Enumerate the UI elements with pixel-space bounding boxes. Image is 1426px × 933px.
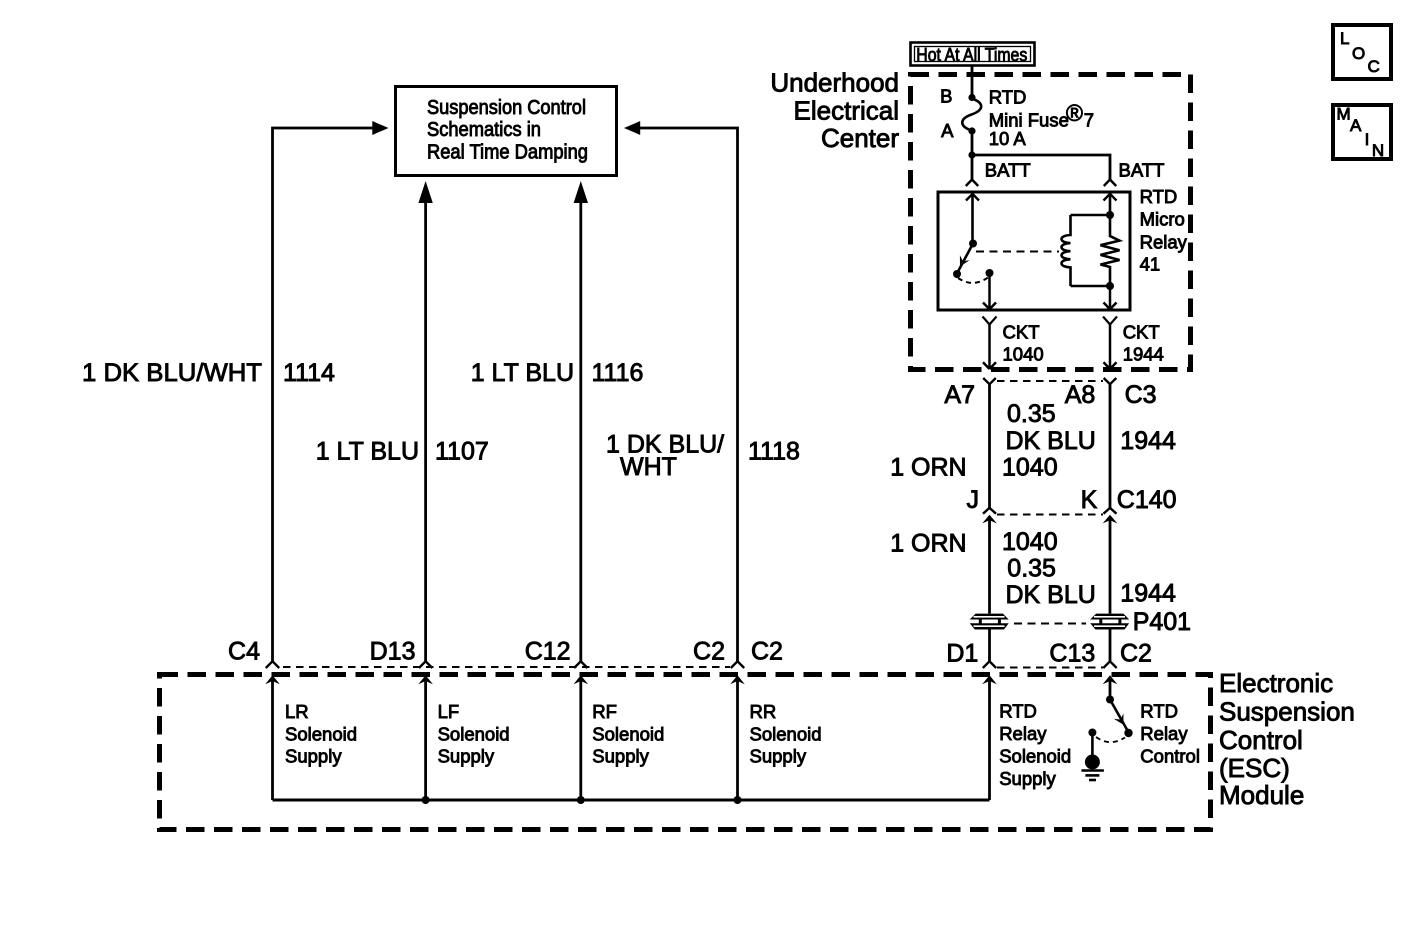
junction dot RR: [734, 796, 742, 804]
dashed connector line J-K: [997, 514, 1103, 516]
wire from hot feed to fuse: [971, 67, 974, 98]
relay coil output dot: [1106, 282, 1114, 290]
svg-text:0.35: 0.35: [1007, 400, 1056, 428]
switch left dot: [1088, 729, 1096, 737]
svg-text:RTD: RTD: [989, 87, 1027, 108]
svg-text:BATT: BATT: [985, 159, 1031, 180]
box Hot At All Times: [911, 43, 1035, 66]
svg-text:1 DK BLU/WHT: 1 DK BLU/WHT: [82, 359, 262, 387]
svg-text:1040: 1040: [1002, 454, 1058, 482]
relay output Y terminal left: [983, 317, 997, 325]
wire fuse output: [971, 131, 974, 180]
connector chevron C13: [1103, 661, 1116, 668]
svg-text:1 ORN: 1 ORN: [890, 530, 966, 558]
label wire 1107: [316, 438, 489, 466]
svg-text:Relay: Relay: [1140, 723, 1188, 744]
svg-text:J: J: [967, 486, 980, 514]
wire RTD relay control with arrow: [1103, 675, 1118, 699]
connector chevron J: [983, 508, 996, 514]
relay resistor: [1101, 215, 1120, 286]
label RTD Relay Solenoid Supply: [999, 701, 1071, 790]
svg-text:Real Time Damping: Real Time Damping: [427, 142, 588, 164]
svg-text:P401: P401: [1133, 608, 1191, 636]
svg-text:L: L: [1340, 29, 1349, 48]
connector row C4 D13 C12 C2 labels: [228, 638, 783, 666]
svg-text:Module: Module: [1219, 780, 1304, 810]
relay control contact dot: [1124, 729, 1132, 737]
svg-text:D1: D1: [946, 640, 978, 668]
svg-text:O: O: [1352, 44, 1365, 63]
svg-text:DK BLU: DK BLU: [1006, 427, 1096, 455]
wire 1944 segment upper: [1109, 384, 1112, 509]
box Suspension Control Schematics in Real Time Damping: [396, 87, 617, 176]
relay switch movable arm: [958, 244, 973, 272]
MAIN reference box: [1333, 105, 1391, 161]
switch travel dashed arc: [1096, 737, 1125, 742]
svg-text:Relay: Relay: [999, 723, 1047, 744]
label CKT 1040: [1003, 322, 1044, 365]
connector chevron BATT left: [966, 180, 978, 187]
svg-text:Electronic: Electronic: [1219, 668, 1333, 698]
wire RTD relay solenoid supply with arrow: [982, 675, 997, 800]
svg-text:1116: 1116: [592, 359, 644, 387]
svg-text:RTD: RTD: [999, 701, 1037, 722]
svg-text:Solenoid: Solenoid: [592, 723, 664, 744]
svg-text:C140: C140: [1117, 486, 1177, 514]
connector chevron C4: [266, 661, 279, 668]
svg-text:Supply: Supply: [438, 746, 495, 767]
svg-text:LF: LF: [438, 701, 460, 722]
svg-text:1 LT BLU: 1 LT BLU: [471, 359, 574, 387]
svg-text:A: A: [941, 120, 954, 141]
svg-text:BATT: BATT: [1119, 159, 1165, 180]
relay coil input pole with arrow: [1104, 194, 1117, 219]
svg-text:Supply: Supply: [592, 746, 649, 767]
svg-text:DK BLU: DK BLU: [1006, 581, 1096, 609]
svg-text:D13: D13: [370, 638, 416, 666]
svg-text:Schematics in: Schematics in: [427, 119, 541, 141]
svg-text:RR: RR: [750, 701, 777, 722]
relay switch NO contact dot: [953, 270, 961, 278]
label Electronic Suspension Control (ESC) Module: [1219, 668, 1355, 810]
underhood electrical center dashed box: [911, 75, 1191, 370]
dashed connector line A7-A8: [997, 380, 1103, 382]
relay switch output wire with arrow: [983, 273, 996, 309]
ground stem: [1091, 733, 1094, 757]
connector chevron BATT right: [1104, 180, 1116, 187]
wire 1116 RF solenoid supply: [574, 181, 588, 662]
svg-text:Solenoid: Solenoid: [999, 746, 1071, 767]
svg-text:Micro: Micro: [1140, 208, 1185, 229]
fuse terminal A dot: [968, 127, 975, 134]
svg-text:Control: Control: [1140, 746, 1200, 767]
labels D1 C13 C2: [946, 640, 1152, 668]
svg-text:I: I: [1365, 130, 1370, 149]
relay switch travel dashed arc: [958, 278, 988, 283]
svg-text:M: M: [1337, 105, 1351, 124]
ESC module dashed box: [160, 675, 1211, 830]
svg-text:RTD: RTD: [1140, 701, 1178, 722]
svg-text:C12: C12: [525, 638, 571, 666]
svg-text:Underhood: Underhood: [770, 68, 899, 98]
connector chevron A7: [983, 378, 996, 384]
label RTD Mini Fuse 7 10 A: [989, 87, 1094, 150]
bus wire joining solenoid supplies: [273, 799, 990, 802]
svg-text:Suspension: Suspension: [1219, 697, 1355, 727]
connector chevron C12: [574, 661, 587, 668]
inline connector P401 left barrel: [970, 614, 1009, 630]
svg-text:Supply: Supply: [285, 746, 342, 767]
svg-text:Suspension Control: Suspension Control: [427, 97, 586, 119]
relay coil: [1062, 215, 1111, 286]
svg-text:A7: A7: [944, 381, 975, 409]
label RR Solenoid Supply: [750, 701, 822, 767]
svg-text:C4: C4: [228, 638, 260, 666]
relay control switch pole dot: [1106, 696, 1114, 704]
svg-text:CKT: CKT: [1123, 322, 1160, 343]
svg-text:N: N: [1372, 141, 1384, 160]
svg-text:A: A: [1350, 116, 1362, 135]
wire 1040 to D1: [988, 630, 991, 662]
relay switch common pole: [966, 194, 979, 248]
junction dot below fuse: [968, 151, 975, 158]
svg-text:C2: C2: [751, 638, 783, 666]
label LF Solenoid Supply: [438, 701, 510, 767]
svg-text:C3: C3: [1125, 381, 1157, 409]
svg-text:Solenoid: Solenoid: [438, 723, 510, 744]
connector chevron D13: [419, 661, 432, 668]
label wire 1114: [82, 359, 335, 387]
labels A7 A8 C3: [944, 381, 1156, 409]
wire RF inside module with arrow: [574, 675, 589, 800]
svg-text:Relay: Relay: [1140, 231, 1188, 252]
svg-text:41: 41: [1140, 254, 1161, 275]
svg-text:LR: LR: [285, 701, 309, 722]
wire 1107 LF solenoid supply: [418, 181, 432, 662]
svg-text:C13: C13: [1049, 640, 1095, 668]
svg-text:1114: 1114: [283, 359, 335, 387]
relay switch output dot: [986, 269, 994, 277]
wire LR inside module with arrow: [265, 675, 280, 800]
wire 1114 LR solenoid supply: [273, 121, 389, 662]
svg-text:A8: A8: [1065, 381, 1096, 409]
dashed connector line across module top: [283, 666, 730, 668]
wire CKT 1944 with arrow: [1104, 325, 1117, 370]
svg-text:Control: Control: [1219, 725, 1303, 755]
svg-text:1944: 1944: [1123, 344, 1164, 365]
svg-text:1 ORN: 1 ORN: [890, 454, 966, 482]
relay mechanical linkage dashed: [976, 251, 1059, 253]
label 0.35 DK BLU 1040: [1002, 400, 1096, 482]
relay control switch arm: [1110, 700, 1128, 731]
junction dot LF: [422, 796, 430, 804]
connector chevron A8: [1104, 378, 1117, 384]
wire RR inside module with arrow: [730, 675, 745, 800]
svg-text:1107: 1107: [435, 438, 489, 466]
wire LF inside module with arrow: [418, 675, 433, 800]
svg-text:Solenoid: Solenoid: [750, 723, 822, 744]
label Underhood Electrical Center: [770, 68, 899, 154]
svg-text:Center: Center: [821, 123, 899, 153]
wire to right BATT terminal: [972, 155, 1110, 180]
svg-text:1 LT BLU: 1 LT BLU: [316, 438, 419, 466]
svg-text:Hot At All Times: Hot At All Times: [916, 44, 1027, 65]
label wire 1118: [606, 431, 800, 482]
svg-text:Supply: Supply: [750, 746, 807, 767]
label RTD Micro Relay 41: [1140, 186, 1188, 275]
inline connector P401 right barrel: [1090, 614, 1129, 630]
wire 1118 RR solenoid supply: [624, 121, 738, 662]
svg-text:7: 7: [1084, 109, 1094, 130]
wire CKT 1040 with arrow: [983, 325, 996, 370]
junction dot RF: [577, 796, 585, 804]
svg-text:Electrical: Electrical: [794, 96, 899, 126]
svg-text:1944: 1944: [1120, 580, 1176, 608]
svg-text:1040: 1040: [1003, 344, 1044, 365]
relay RTD Micro Relay 41 box: [938, 192, 1130, 310]
ground symbol: [1081, 771, 1104, 781]
svg-text:1118: 1118: [748, 438, 800, 466]
svg-text:Solenoid: Solenoid: [285, 723, 357, 744]
svg-text:CKT: CKT: [1003, 322, 1040, 343]
svg-text:Supply: Supply: [999, 768, 1056, 789]
dashed connector line D1-C13: [997, 667, 1103, 669]
svg-text:1944: 1944: [1120, 427, 1176, 455]
wire 1944 to C13: [1109, 630, 1112, 662]
svg-text:1040: 1040: [1002, 528, 1058, 556]
fuse RTD Mini Fuse 7 element: [962, 99, 981, 131]
svg-text:®: ®: [1066, 100, 1083, 126]
label RTD Relay Control: [1140, 701, 1200, 767]
label RF Solenoid Supply: [592, 701, 664, 767]
svg-text:RTD: RTD: [1140, 186, 1178, 207]
svg-text:RF: RF: [592, 701, 617, 722]
svg-text:C2: C2: [1120, 640, 1152, 668]
svg-text:C: C: [1368, 57, 1380, 76]
svg-text:B: B: [940, 86, 952, 107]
fuse terminal B dot: [968, 94, 975, 101]
label 1040 0.35 DK BLU lower: [1002, 528, 1096, 609]
svg-text:C2: C2: [693, 638, 725, 666]
svg-text:10 A: 10 A: [989, 128, 1027, 149]
wire 1040 segment upper: [988, 384, 991, 509]
connector chevron C2: [731, 661, 744, 668]
relay output Y terminal right: [1103, 317, 1117, 325]
connector chevron K: [1104, 508, 1117, 514]
connector chevron D1: [983, 661, 996, 668]
label CKT 1944: [1123, 322, 1164, 365]
relay coil output wire with arrow: [1104, 286, 1117, 309]
label wire 1116: [471, 359, 644, 387]
svg-text:K: K: [1081, 486, 1098, 514]
svg-text:(ESC): (ESC): [1219, 753, 1290, 783]
labels J K C140: [967, 486, 1177, 514]
svg-text:0.35: 0.35: [1007, 555, 1056, 583]
label LR Solenoid Supply: [285, 701, 357, 767]
LOC reference box: [1333, 25, 1391, 79]
dashed line between P401 barrels: [1014, 623, 1086, 625]
svg-text:WHT: WHT: [620, 453, 677, 481]
ground ball: [1085, 755, 1100, 770]
